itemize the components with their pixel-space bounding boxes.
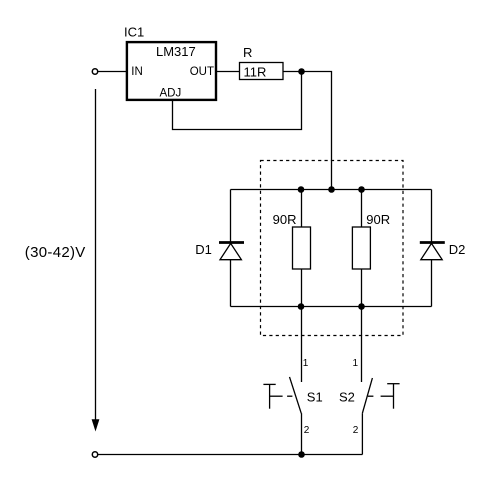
svg-text:R: R: [243, 45, 252, 60]
wire node to top bus drop: [302, 72, 332, 190]
svg-text:1: 1: [303, 358, 309, 369]
wire ADJ feedback: [173, 72, 302, 130]
diode D1: [219, 190, 244, 307]
dashed enclosure box: [261, 161, 404, 336]
svg-text:LM317: LM317: [156, 44, 196, 59]
annotation voltage arrow line: [95, 89, 97, 421]
svg-text:IC1: IC1: [124, 25, 144, 40]
wire top bus: [231, 189, 432, 191]
svg-text:ADJ: ADJ: [160, 88, 182, 100]
junction bottom bus left: [298, 303, 305, 310]
annotation voltage arrow head: [92, 419, 100, 431]
resistor 90R left: [293, 190, 311, 307]
svg-text:D2: D2: [449, 242, 466, 257]
svg-text:D1: D1: [195, 242, 212, 257]
op-amp/regulator IC1 LM317 body: [127, 42, 216, 100]
svg-text:1: 1: [352, 358, 358, 369]
svg-text:OUT: OUT: [190, 66, 214, 78]
svg-text:IN: IN: [131, 66, 143, 78]
wire R to output node: [283, 71, 302, 73]
wire to S2 pin 1: [361, 307, 363, 383]
wire input to IC1 IN: [98, 71, 127, 73]
wire S1 pin 2 down: [301, 413, 303, 454]
terminal input (+): [92, 69, 97, 74]
wire OUT to R: [216, 71, 240, 73]
svg-text:(30-42)V: (30-42)V: [25, 244, 86, 261]
junction top bus right: [358, 186, 365, 193]
wire bottom bus: [98, 454, 363, 456]
diode D2: [420, 190, 445, 307]
svg-text:11R: 11R: [244, 65, 267, 80]
junction bottom node: [298, 451, 305, 458]
terminal output (-): [92, 452, 97, 457]
svg-text:90R: 90R: [273, 212, 297, 227]
resistor 90R right: [352, 190, 370, 307]
wire bottom bus inside box: [231, 306, 432, 308]
resistor R body: [240, 63, 284, 80]
wire S2 pin 2 down: [361, 413, 363, 454]
switch S2: [362, 378, 399, 413]
switch S1: [263, 377, 301, 414]
svg-text:2: 2: [353, 425, 359, 436]
junction top bus middle: [328, 186, 335, 193]
svg-text:S1: S1: [307, 390, 323, 405]
svg-text:2: 2: [304, 425, 310, 436]
junction top bus left: [298, 186, 305, 193]
svg-text:S2: S2: [339, 390, 355, 405]
svg-text:90R: 90R: [366, 212, 390, 227]
junction bottom bus right: [358, 303, 365, 310]
junction node OUT: [298, 68, 305, 75]
wire to S1 pin 1: [301, 307, 303, 383]
